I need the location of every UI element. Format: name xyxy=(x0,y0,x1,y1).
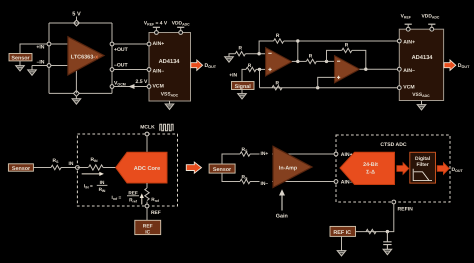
arrow: transition arrow to next stage xyxy=(186,162,201,173)
svg-text:REF: REF xyxy=(143,224,153,230)
junction: top line node xyxy=(296,39,299,42)
svg-text:AIN–: AIN– xyxy=(153,68,165,74)
wire: tap down to VCM line xyxy=(259,69,261,87)
svg-text:+IN: +IN xyxy=(229,73,237,79)
svg-text:IN: IN xyxy=(100,180,105,185)
pin: VREF top pin (left AD4134) xyxy=(155,31,159,35)
wire: VCM bottom line xyxy=(260,87,400,89)
wire: REF node to REF IC xyxy=(146,208,148,220)
wire: RIN to ADC core tip xyxy=(103,167,116,169)
svg-text:LTC6363-x: LTC6363-x xyxy=(71,55,99,61)
wire: A2 feedback riser xyxy=(327,50,342,61)
ground: on -IN input xyxy=(28,70,37,75)
wire: R2 to A1 plus input xyxy=(256,68,267,70)
wire: -OUT line from loop to ADC xyxy=(112,69,149,71)
ground: at R1 input xyxy=(225,57,234,62)
amplifier: In-Amp triangle xyxy=(273,146,312,187)
IC: REF IC (bottom-right) xyxy=(330,226,356,236)
ground: under Signal box xyxy=(238,94,247,99)
block: 24-bit sigma-delta modulator pentagon xyxy=(340,152,395,184)
wire: Rf2 to A2 output xyxy=(352,50,366,69)
svg-text:R: R xyxy=(248,63,252,69)
arrow: modulator to filter xyxy=(397,163,409,175)
resistor R2 to plus input xyxy=(246,67,256,71)
svg-text:R: R xyxy=(345,43,349,49)
dashed box: CTSD ADC boundary xyxy=(336,135,450,202)
junction: A1 feedback node xyxy=(257,52,260,55)
ground: under capacitor xyxy=(383,249,392,254)
svg-text:VCM: VCM xyxy=(403,85,414,91)
svg-text:5 V: 5 V xyxy=(72,12,81,18)
svg-text:REF: REF xyxy=(128,191,138,196)
IC U2 AD4134 (left) xyxy=(149,33,191,102)
junction: A1 output node xyxy=(296,60,299,63)
wire: Rref to REF node xyxy=(146,202,148,207)
pin: VCM (right AD4134) xyxy=(397,86,401,90)
wire: A1 output riser to top line xyxy=(297,41,299,61)
svg-text:24-Bit: 24-Bit xyxy=(363,162,378,168)
resistor: REF IC series R xyxy=(366,229,376,233)
pin: VREF top pin (right AD4134) xyxy=(406,27,410,31)
svg-text:IN+: IN+ xyxy=(261,151,269,157)
wire: top line from Rf1 to AIN+ xyxy=(284,40,400,42)
arrow: DOUT data arrow (right) xyxy=(444,60,456,70)
pin: VCM (left AD4134) xyxy=(147,85,151,89)
op-amp A2 xyxy=(335,56,360,83)
op-amp A1 xyxy=(266,48,292,76)
sensor: Sensor box (bottom-right) xyxy=(209,164,235,173)
wire: REF IC ground stub xyxy=(341,236,343,250)
resistor R4 on VCM line xyxy=(272,86,282,90)
resistor Rf2 feedback of A2 xyxy=(342,48,352,52)
svg-text:–IN: –IN xyxy=(37,60,45,66)
resistor RS (bottom-left) xyxy=(51,165,61,169)
wire: R1 to A1 minus input xyxy=(245,53,266,55)
arrow: DOUT data arrow (left) xyxy=(191,60,203,70)
wire: IN- line to AIN- xyxy=(250,181,336,183)
ground: under right AD4134 xyxy=(417,105,426,110)
wire: VSS ground stub (right AD4134) xyxy=(421,101,423,105)
pin: AIN+ ring (CTSD) xyxy=(334,152,338,156)
resistor RS2 (IN-) xyxy=(240,179,250,183)
pin: AIN+ (left AD4134) xyxy=(147,42,151,46)
wire: 5V stub xyxy=(76,17,78,21)
resistor R1 to inverting input xyxy=(235,52,245,56)
svg-text:Sensor: Sensor xyxy=(12,166,31,172)
svg-text:IN: IN xyxy=(69,161,74,167)
op-amp U1 LTC6363-x xyxy=(68,37,104,75)
IC U3 AD4134 (right) xyxy=(399,29,443,100)
label: IN+ xyxy=(260,149,273,155)
wire: stub to ground from bottom rail xyxy=(75,96,77,99)
svg-text:IN–: IN– xyxy=(261,181,269,187)
wire: R3 to A2 minus input xyxy=(316,60,335,62)
pin: IN node ring xyxy=(76,166,80,170)
sensor: Sensor box (bottom-left) xyxy=(8,164,33,171)
ground: under left AD4134 xyxy=(165,104,174,109)
wire: bottom rail of loop xyxy=(49,92,112,94)
arrow: 2.5V direction arrow pointing left xyxy=(128,84,134,89)
svg-text:R: R xyxy=(309,54,313,60)
supply: VREF = 4V bar xyxy=(153,26,160,28)
sensor: Sensor box (top-left) xyxy=(9,54,32,61)
arrow: Iref current direction (up) xyxy=(141,197,143,204)
resistor RS1 (IN+) xyxy=(240,152,250,156)
svg-text:AIN–: AIN– xyxy=(403,68,415,74)
pin: REFIN ring on dashed edge xyxy=(392,200,396,204)
dashed box: ADC core boundary xyxy=(77,134,177,206)
wire: RS to IN node xyxy=(61,167,77,169)
block: ADC Core pentagon xyxy=(116,152,167,183)
pin: MCLK node on dashed edge xyxy=(145,132,149,136)
wire: -IN ground stub xyxy=(31,66,33,70)
pin: -OUT node xyxy=(110,68,114,72)
supply: VREF bar (right) xyxy=(405,23,412,25)
wire: -IN node to amp xyxy=(49,65,69,67)
svg-text:Σ-Δ: Σ-Δ xyxy=(366,170,375,176)
svg-text:2.5 V: 2.5 V xyxy=(136,79,148,85)
supply: VDD ADC bar (right) xyxy=(428,23,435,25)
svg-text:REF: REF xyxy=(151,210,161,216)
wire: VSS ground stub (left AD4134) xyxy=(169,101,171,104)
svg-text:In-Amp: In-Amp xyxy=(279,166,298,172)
ground: under LTC6363 loop xyxy=(72,99,81,104)
pin: VOCM node xyxy=(110,85,114,89)
svg-text:Signal: Signal xyxy=(235,84,252,90)
junction: cap node xyxy=(386,230,389,233)
resistor Rref (vertical) xyxy=(145,188,149,201)
arrow: IIN current direction xyxy=(82,173,100,175)
wire: amp bottom pin to bottom rail xyxy=(75,68,77,93)
svg-text:MCLK: MCLK xyxy=(140,124,155,130)
pin: REF node ring on dashed edge xyxy=(145,204,149,208)
arrow: Gain adjust arrow xyxy=(281,194,283,211)
svg-text:Filter: Filter xyxy=(416,162,428,168)
junction: A2 feedback node xyxy=(325,60,328,63)
IC: REF IC (bottom-left) xyxy=(135,220,161,234)
pin: VDD top pin (left AD4134) xyxy=(179,31,183,35)
wire: signal riser to plus input xyxy=(242,69,246,81)
svg-text:R: R xyxy=(239,45,243,51)
resistor RIN xyxy=(89,165,104,170)
wire: MCLK into ADC core xyxy=(146,136,148,152)
pin: +IN node xyxy=(47,42,51,46)
wire: sensor bottom stub to ground xyxy=(19,61,21,66)
svg-text:AD4134: AD4134 xyxy=(412,55,434,61)
svg-text:R: R xyxy=(276,33,280,39)
block: Digital Filter box xyxy=(410,152,436,183)
wire: ADC core bottom to Rref xyxy=(146,183,148,188)
svg-text:AIN+: AIN+ xyxy=(153,41,165,47)
junction: A2 plus input tap xyxy=(316,86,319,89)
signal source box: Signal xyxy=(232,82,255,90)
wire: top rail of LTC6363 loop xyxy=(49,22,112,24)
clock waveform icon xyxy=(160,124,173,131)
svg-text:REFIN: REFIN xyxy=(398,206,414,212)
supply: VDD ADC bar xyxy=(177,26,184,28)
wire: sensor to RS xyxy=(33,167,51,169)
wire: IN+ line to AIN+ xyxy=(250,153,336,155)
resistor Rf1 feedback of A1 xyxy=(274,39,284,43)
wire: A2 output to AIN- xyxy=(360,68,400,70)
ground: under Sensor box xyxy=(16,66,25,71)
wire: left vertical of loop xyxy=(48,23,50,93)
svg-text:Sensor: Sensor xyxy=(11,56,30,62)
wire: +OUT line from loop to ADC xyxy=(112,43,149,45)
wire: REFIN down and left to RC xyxy=(356,204,394,232)
svg-text:AIN+: AIN+ xyxy=(403,39,415,45)
wire: right vertical of loop xyxy=(111,23,113,93)
wire: A1 output xyxy=(292,60,307,62)
svg-text:CTSD ADC: CTSD ADC xyxy=(380,142,406,148)
wire: VOCM line from loop to VCM xyxy=(112,86,149,88)
node: bottom rail ground tap diamond xyxy=(74,91,80,97)
pin: AIN- ring (CTSD) xyxy=(334,180,338,184)
wire: sensor top lead to RS1 xyxy=(222,154,240,164)
svg-text:+OUT: +OUT xyxy=(114,47,129,53)
pin: AIN- (left AD4134) xyxy=(147,68,151,72)
svg-text:IC: IC xyxy=(145,229,150,235)
pin: VDD top pin (right AD4134) xyxy=(430,27,434,31)
svg-text:Gain: Gain xyxy=(276,213,288,219)
junction: plus input tap to VCM line xyxy=(258,68,261,71)
icon: low-pass response inside Digital Filter xyxy=(413,169,432,181)
wire: sensor bottom lead to RS2 xyxy=(222,173,240,181)
wire: A2 plus input riser xyxy=(318,77,336,87)
pin: AIN- (right AD4134) xyxy=(397,67,401,71)
svg-text:Sensor: Sensor xyxy=(213,167,232,173)
pin: +OUT node xyxy=(110,42,114,46)
svg-text:VCM: VCM xyxy=(153,83,164,89)
svg-text:ADC Core: ADC Core xyxy=(134,166,160,172)
wire: R1 left lead and ground corner xyxy=(229,54,235,57)
wire: sensor top lead up to +IN line xyxy=(20,44,49,54)
pin: -IN node xyxy=(47,64,51,68)
svg-text:R: R xyxy=(276,80,280,86)
svg-text:AD4134: AD4134 xyxy=(159,59,181,65)
arrow: filter to DOUT xyxy=(437,163,449,175)
junction: A2 output node xyxy=(364,68,367,71)
resistor R3 between stages xyxy=(306,59,316,63)
wire: +IN node to amp xyxy=(49,43,69,45)
ground: under REF IC xyxy=(337,251,346,256)
wire: -IN line from ground stub to node xyxy=(32,65,49,67)
wire: IN to RIN xyxy=(77,167,88,169)
wire: feedback riser of A1 xyxy=(259,41,274,54)
wire: Signal ground stub xyxy=(241,90,243,94)
node: 5V tap diamond on top rail xyxy=(74,20,80,26)
svg-text:–OUT: –OUT xyxy=(114,62,128,68)
svg-text:REF IC: REF IC xyxy=(333,230,351,236)
capacitor C1 xyxy=(383,232,391,250)
label: IN- xyxy=(260,180,273,186)
pin: AIN+ (right AD4134) xyxy=(397,39,401,43)
svg-text:+IN: +IN xyxy=(36,45,44,51)
